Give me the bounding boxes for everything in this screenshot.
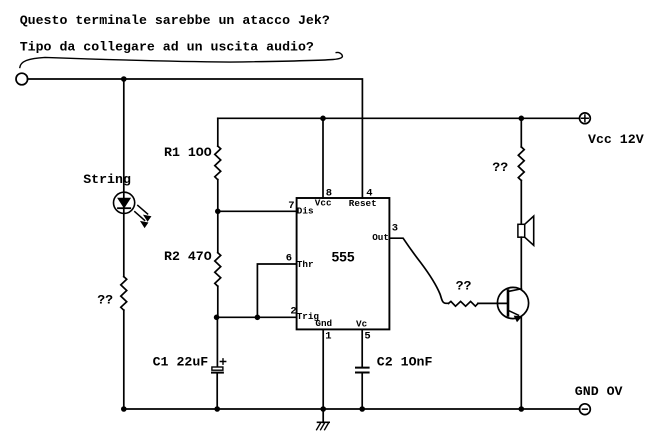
svg-text:2: 2 [290, 306, 296, 318]
svg-text:C1 22uF: C1 22uF [153, 355, 209, 370]
svg-text:??: ?? [492, 160, 508, 175]
svg-text:Vc: Vc [356, 319, 368, 330]
svg-text:7: 7 [288, 200, 294, 212]
svg-text:8: 8 [326, 187, 332, 199]
svg-text:555: 555 [332, 250, 355, 265]
svg-text:??: ?? [97, 293, 113, 308]
svg-text:4: 4 [366, 187, 372, 199]
svg-text:R1 1OO: R1 1OO [164, 145, 212, 160]
svg-text:3: 3 [392, 223, 398, 235]
svg-text:Vcc 12V: Vcc 12V [588, 132, 644, 147]
svg-text:C2 1OnF: C2 1OnF [377, 355, 433, 370]
svg-text:Thr: Thr [297, 259, 314, 270]
svg-text:Dis: Dis [297, 205, 314, 216]
svg-text:Gnd: Gnd [315, 318, 332, 329]
svg-text:Tipo da collegare ad un uscita: Tipo da collegare ad un uscita audio? [20, 40, 314, 55]
svg-text:String: String [83, 172, 131, 187]
svg-text:6: 6 [286, 253, 292, 265]
svg-text:Out: Out [372, 232, 389, 243]
svg-text:Reset: Reset [349, 198, 377, 209]
svg-text:1: 1 [325, 331, 331, 343]
svg-text:??: ?? [456, 278, 472, 293]
svg-text:5: 5 [364, 331, 370, 343]
svg-text:Questo terminale sarebbe un at: Questo terminale sarebbe un atacco Jek? [20, 13, 330, 28]
svg-text:GND OV: GND OV [575, 384, 623, 399]
svg-text:R2 47O: R2 47O [164, 249, 212, 264]
